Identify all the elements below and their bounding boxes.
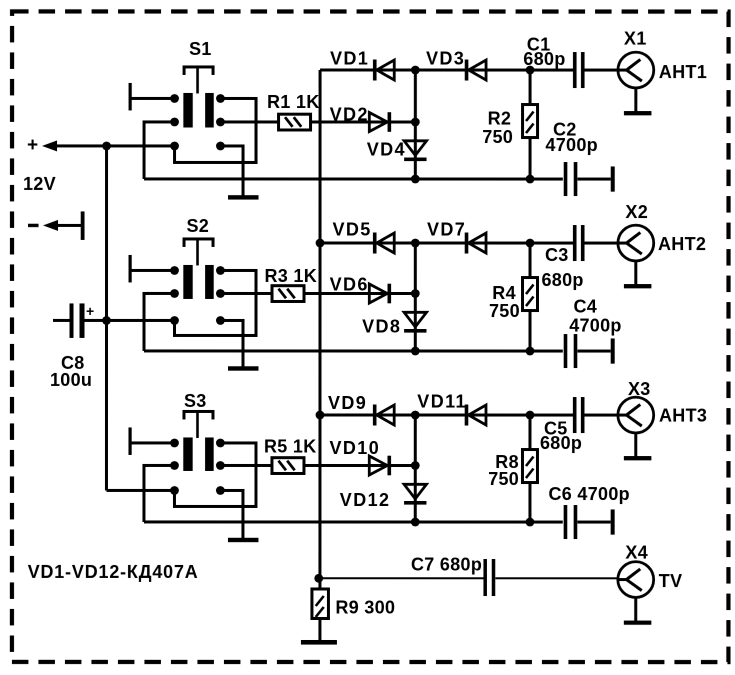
capacitor C7	[483, 559, 495, 596]
svg-text:R9 300: R9 300	[335, 597, 395, 617]
wire S3 row3 to ground	[220, 490, 243, 540]
terminal stub left of S3	[128, 427, 174, 455]
diode VD1	[373, 60, 394, 81]
node S3 contact d	[216, 461, 225, 470]
wire S3 row2 to output bus	[144, 465, 175, 522]
diode VD12	[404, 484, 426, 504]
node line1 cap junction	[526, 66, 535, 75]
node S3 contact a	[170, 439, 179, 448]
label C7 680p	[411, 555, 482, 575]
label TV	[659, 571, 683, 591]
ground S2	[228, 366, 259, 370]
label X2	[625, 202, 648, 222]
power + terminal with arrow	[27, 135, 175, 156]
wire R9 to ground	[318, 618, 321, 640]
node row2 junction 1	[411, 118, 420, 127]
wire +12V rail	[105, 146, 108, 491]
node S2 contact f	[216, 316, 225, 325]
capacitor C1	[573, 52, 618, 88]
svg-text:R2: R2	[488, 108, 512, 128]
resistor R4	[523, 278, 538, 311]
terminal stub left of S2	[129, 255, 175, 283]
svg-text:680p: 680p	[523, 49, 565, 69]
wire S1 row2 to resistor	[220, 120, 278, 123]
label R4	[492, 283, 516, 303]
label R2	[488, 108, 512, 128]
node bottom junction 3a	[411, 518, 420, 527]
node TV junction	[314, 574, 323, 583]
svg-text:X4: X4	[625, 543, 648, 563]
wire S1 row3 to ground	[220, 146, 243, 197]
wire S2 row2 to output bus	[144, 293, 175, 351]
diode VD9	[373, 405, 394, 426]
label VD6	[330, 274, 369, 294]
label R5 1K	[264, 436, 317, 456]
wire node vertical 3	[414, 415, 417, 522]
label C4 value	[569, 316, 622, 336]
svg-text:VD7: VD7	[427, 220, 466, 240]
diode VD10	[369, 456, 391, 476]
node S3 contact b	[216, 439, 225, 448]
svg-text:C3: C3	[545, 245, 569, 265]
wire S3 row3 feed	[106, 489, 174, 492]
label X3	[628, 379, 651, 399]
label R8	[495, 452, 519, 472]
svg-text:VD10: VD10	[329, 438, 380, 458]
capacitor C3	[573, 225, 618, 261]
label C5	[544, 419, 568, 439]
node line3 junction	[411, 411, 420, 420]
resistor R8	[522, 450, 537, 483]
terminal after cap 2	[611, 338, 615, 363]
svg-text:АНТ2: АНТ2	[658, 234, 706, 254]
node bus junction line3	[316, 411, 325, 420]
node S2 contact c	[170, 289, 179, 298]
label C1 value	[523, 49, 565, 69]
label VD1	[330, 48, 369, 68]
label S3	[184, 391, 207, 411]
terminal after cap 1	[611, 166, 615, 191]
wire cap node to bottom 3	[528, 415, 531, 522]
node bottom junction 1b	[526, 175, 535, 184]
svg-text:S1: S1	[189, 39, 212, 59]
node bottom junction 2b	[526, 347, 535, 356]
svg-text:+: +	[27, 135, 38, 156]
wire S3 crossover loop	[174, 443, 256, 507]
label X1	[624, 29, 647, 49]
switch S1 actuator bracket	[184, 67, 213, 94]
label R8 value	[488, 469, 519, 489]
wire S2 row3 to ground	[220, 320, 243, 368]
wire antenna line 1	[320, 68, 573, 71]
node S1 contact a	[170, 94, 179, 103]
node rail/+12V junction	[102, 142, 111, 151]
label АНТ2	[658, 234, 706, 254]
capacitor C8	[53, 303, 107, 338]
node S1 contact d	[216, 118, 225, 127]
svg-text:VD3: VD3	[426, 49, 465, 69]
svg-text:X3: X3	[628, 379, 651, 399]
svg-text:C6 4700p: C6 4700p	[548, 484, 629, 504]
diode VD2	[369, 112, 391, 132]
node bottom junction 3b	[526, 518, 535, 527]
wire S2 crossover loop	[175, 270, 257, 335]
wire node vertical 1	[414, 70, 417, 179]
label S2	[187, 216, 210, 236]
switch S2 actuator bracket	[184, 239, 213, 266]
label VD5	[333, 219, 372, 239]
wire S1 crossover loop	[175, 98, 257, 162]
capacitor C6	[564, 505, 611, 539]
diode VD7	[465, 233, 486, 254]
svg-text:4700p: 4700p	[545, 135, 598, 155]
diode VD5	[373, 233, 394, 254]
wire antenna line 3	[320, 413, 573, 416]
node S1 contact f	[216, 142, 225, 151]
label VD1-VD12 type note	[28, 562, 199, 582]
node S3 contact c	[170, 461, 179, 470]
diode VD4	[404, 141, 426, 161]
label C3	[545, 245, 569, 265]
svg-text:X2: X2	[625, 202, 648, 222]
wire cap node to bottom 2	[528, 243, 531, 351]
svg-text:R3 1K: R3 1K	[265, 266, 318, 286]
label VD11	[417, 392, 467, 412]
wire resistor to VD2	[311, 120, 416, 123]
svg-text:750: 750	[489, 301, 520, 321]
svg-text:X1: X1	[624, 29, 647, 49]
capacitor C4	[564, 334, 611, 368]
wire S1 row2 to output bus	[144, 122, 175, 179]
label R2 value	[482, 127, 513, 147]
diode VD11	[465, 405, 486, 426]
ground S1	[228, 195, 259, 199]
switch S2 right contact bar	[205, 265, 214, 299]
ground R9	[301, 640, 337, 645]
ground stub X2	[624, 261, 652, 288]
label 100u	[50, 370, 92, 390]
node bus junction line2	[316, 239, 325, 248]
svg-text:100u: 100u	[50, 370, 92, 390]
label R1 1K	[267, 92, 320, 112]
label C2	[553, 119, 577, 139]
ground S3	[228, 538, 259, 542]
label C8	[61, 353, 85, 373]
svg-text:TV: TV	[659, 571, 683, 591]
label VD4	[367, 139, 406, 159]
ground stub X3	[624, 433, 652, 460]
switch S1 left contact bar	[183, 93, 192, 128]
switch S3 actuator bracket	[184, 411, 213, 438]
node S1 contact b	[216, 94, 225, 103]
wire node vertical 2	[414, 243, 417, 351]
connector X2	[618, 225, 654, 261]
switch S3 left contact bar	[183, 437, 192, 471]
label C6 4700p	[548, 484, 629, 504]
terminal stub left of S1	[129, 83, 175, 111]
svg-text:680p: 680p	[540, 433, 582, 453]
node S2 contact e	[170, 316, 179, 325]
ground stub X4	[624, 597, 652, 624]
node line2 junction	[411, 239, 420, 248]
node S2 contact a	[170, 266, 179, 275]
label VD9	[328, 393, 367, 413]
wire bottom line 2	[144, 349, 563, 352]
label C1	[527, 35, 551, 55]
svg-text:VD9: VD9	[328, 393, 367, 413]
label R9 300	[335, 597, 395, 617]
connector X1	[618, 52, 654, 88]
node S3 contact e	[170, 486, 179, 495]
svg-text:S2: S2	[187, 216, 210, 236]
power - terminal with arrow	[28, 211, 85, 240]
node bottom junction 1a	[411, 175, 420, 184]
ground stub X1	[624, 88, 652, 115]
svg-text:750: 750	[488, 469, 519, 489]
wire TV line right	[495, 577, 618, 579]
resistor R9	[312, 589, 329, 619]
switch S3 right contact bar	[205, 437, 214, 471]
svg-text:680p: 680p	[542, 270, 584, 290]
wire S2 row3 feed	[107, 319, 175, 322]
label VD2	[330, 104, 369, 124]
svg-text:VD1: VD1	[330, 48, 369, 68]
wire S2 row2 to resistor	[220, 292, 272, 295]
node S2 contact b	[216, 266, 225, 275]
label VD3	[426, 49, 465, 69]
resistor R3	[272, 286, 304, 302]
wire TV bus vertical	[318, 70, 321, 590]
wire TV line left	[319, 577, 484, 579]
svg-text:C7 680p: C7 680p	[411, 555, 482, 575]
svg-text:R1 1K: R1 1K	[267, 92, 320, 112]
svg-text:R5 1K: R5 1K	[264, 436, 317, 456]
svg-text:+: +	[86, 303, 94, 319]
label R3 1K	[265, 266, 318, 286]
wire antenna line 2	[320, 241, 573, 244]
svg-text:12V: 12V	[23, 174, 56, 194]
node S1 contact c	[170, 118, 179, 127]
svg-text:4700p: 4700p	[569, 316, 622, 336]
label C4	[574, 297, 598, 317]
resistor R5	[272, 458, 304, 474]
switch S2 left contact bar	[183, 265, 192, 299]
wire resistor to VD10	[304, 464, 415, 467]
switch S1 right contact bar	[205, 93, 214, 128]
capacitor C2	[564, 162, 611, 196]
svg-text:АНТ1: АНТ1	[659, 62, 707, 82]
svg-text:VD5: VD5	[333, 219, 372, 239]
capacitor C5	[573, 397, 618, 433]
label C3 value	[542, 270, 584, 290]
svg-text:750: 750	[482, 127, 513, 147]
label S1	[189, 39, 212, 59]
node bottom junction 2a	[411, 347, 420, 356]
svg-text:VD12: VD12	[340, 490, 391, 510]
node row2 junction 2	[411, 289, 420, 298]
wire S1 row3 feed	[107, 144, 175, 147]
label VD10	[329, 438, 380, 458]
label VD7	[427, 220, 466, 240]
label C5 value	[540, 433, 582, 453]
wire bottom line 3	[144, 520, 563, 523]
diode VD6	[369, 284, 391, 304]
label АНТ1	[659, 62, 707, 82]
svg-text:VD6: VD6	[330, 274, 369, 294]
node S2 contact d	[216, 289, 225, 298]
label 12V	[23, 174, 56, 194]
node line1 junction	[411, 66, 420, 75]
label C2 value	[545, 135, 598, 155]
connector X3	[618, 397, 654, 433]
connector X4	[618, 562, 654, 598]
resistor R2	[523, 105, 538, 138]
label R4 value	[489, 301, 520, 321]
svg-text:VD1-VD12-КД407А: VD1-VD12-КД407А	[28, 562, 199, 582]
label VD12	[340, 490, 391, 510]
label VD8	[362, 316, 401, 336]
diode VD8	[404, 312, 426, 332]
node S3 contact f	[216, 486, 225, 495]
svg-text:АНТ3: АНТ3	[659, 406, 707, 426]
svg-text:VD2: VD2	[330, 104, 369, 124]
resistor R1	[279, 114, 311, 130]
wire S3 row2 to resistor	[220, 464, 272, 467]
terminal after cap 3	[611, 509, 615, 534]
svg-text:S3: S3	[184, 391, 207, 411]
wire resistor to VD6	[304, 292, 415, 295]
node line2 cap junction	[526, 239, 535, 248]
node line3 cap junction	[526, 411, 535, 420]
svg-text:VD11: VD11	[417, 392, 467, 412]
svg-text:C4: C4	[574, 297, 598, 317]
label X4	[625, 543, 648, 563]
node rail/C8 junction	[102, 316, 111, 325]
diode VD3	[465, 60, 486, 81]
wire cap node to bottom 1	[529, 70, 532, 179]
wire bottom line 1	[144, 177, 563, 180]
svg-text:VD8: VD8	[362, 316, 401, 336]
label АНТ3	[659, 406, 707, 426]
node S1 contact e	[170, 142, 179, 151]
svg-text:VD4: VD4	[367, 139, 406, 159]
node row2 junction 3	[411, 461, 420, 470]
